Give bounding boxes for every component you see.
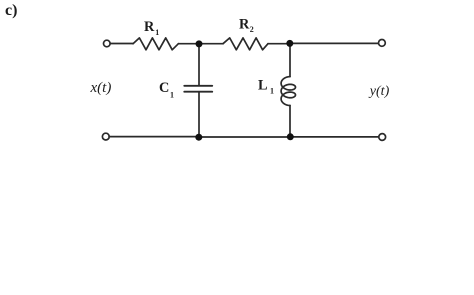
svg-text:1: 1 — [170, 91, 174, 100]
wire input to R1 — [110, 43, 133, 45]
wire inductor to bottom node B — [289, 106, 291, 138]
wire R2 to node B — [268, 43, 290, 45]
capacitor C1 bottom plate — [184, 91, 212, 93]
svg-text:c): c) — [5, 2, 17, 19]
bottom terminal right — [379, 134, 386, 141]
wire node A to R2 — [199, 43, 223, 45]
svg-text:R: R — [239, 17, 250, 33]
wire node A down to capacitor — [198, 44, 200, 86]
svg-text:1: 1 — [155, 28, 159, 37]
svg-text:y(t): y(t) — [368, 84, 390, 99]
resistor R1 — [133, 38, 178, 50]
svg-text:1: 1 — [270, 87, 274, 96]
resistor R2 — [223, 38, 268, 50]
svg-text:C: C — [159, 80, 169, 96]
junction bottom node A — [195, 134, 202, 141]
input terminal top-left — [104, 40, 111, 47]
bottom wire node B to right terminal — [290, 136, 379, 138]
bottom wire node A to node B — [199, 136, 290, 138]
svg-text:2: 2 — [250, 25, 254, 34]
svg-text:R: R — [144, 19, 155, 35]
output terminal top-right — [379, 40, 386, 47]
wire node B down to inductor — [289, 43, 291, 76]
bottom wire left to bottom node A — [109, 136, 199, 138]
inductor L1 coil — [281, 77, 295, 106]
svg-text:x(t): x(t) — [90, 80, 112, 96]
junction bottom node B — [287, 133, 294, 140]
junction node B — [286, 40, 293, 47]
junction node A — [196, 40, 203, 47]
wire node B to output terminal — [290, 42, 378, 44]
svg-text:L: L — [258, 78, 268, 94]
capacitor C1 top plate — [184, 85, 212, 87]
bottom terminal left — [102, 133, 109, 140]
wire R1 to node A — [178, 43, 199, 45]
wire capacitor to bottom node A — [198, 92, 200, 137]
